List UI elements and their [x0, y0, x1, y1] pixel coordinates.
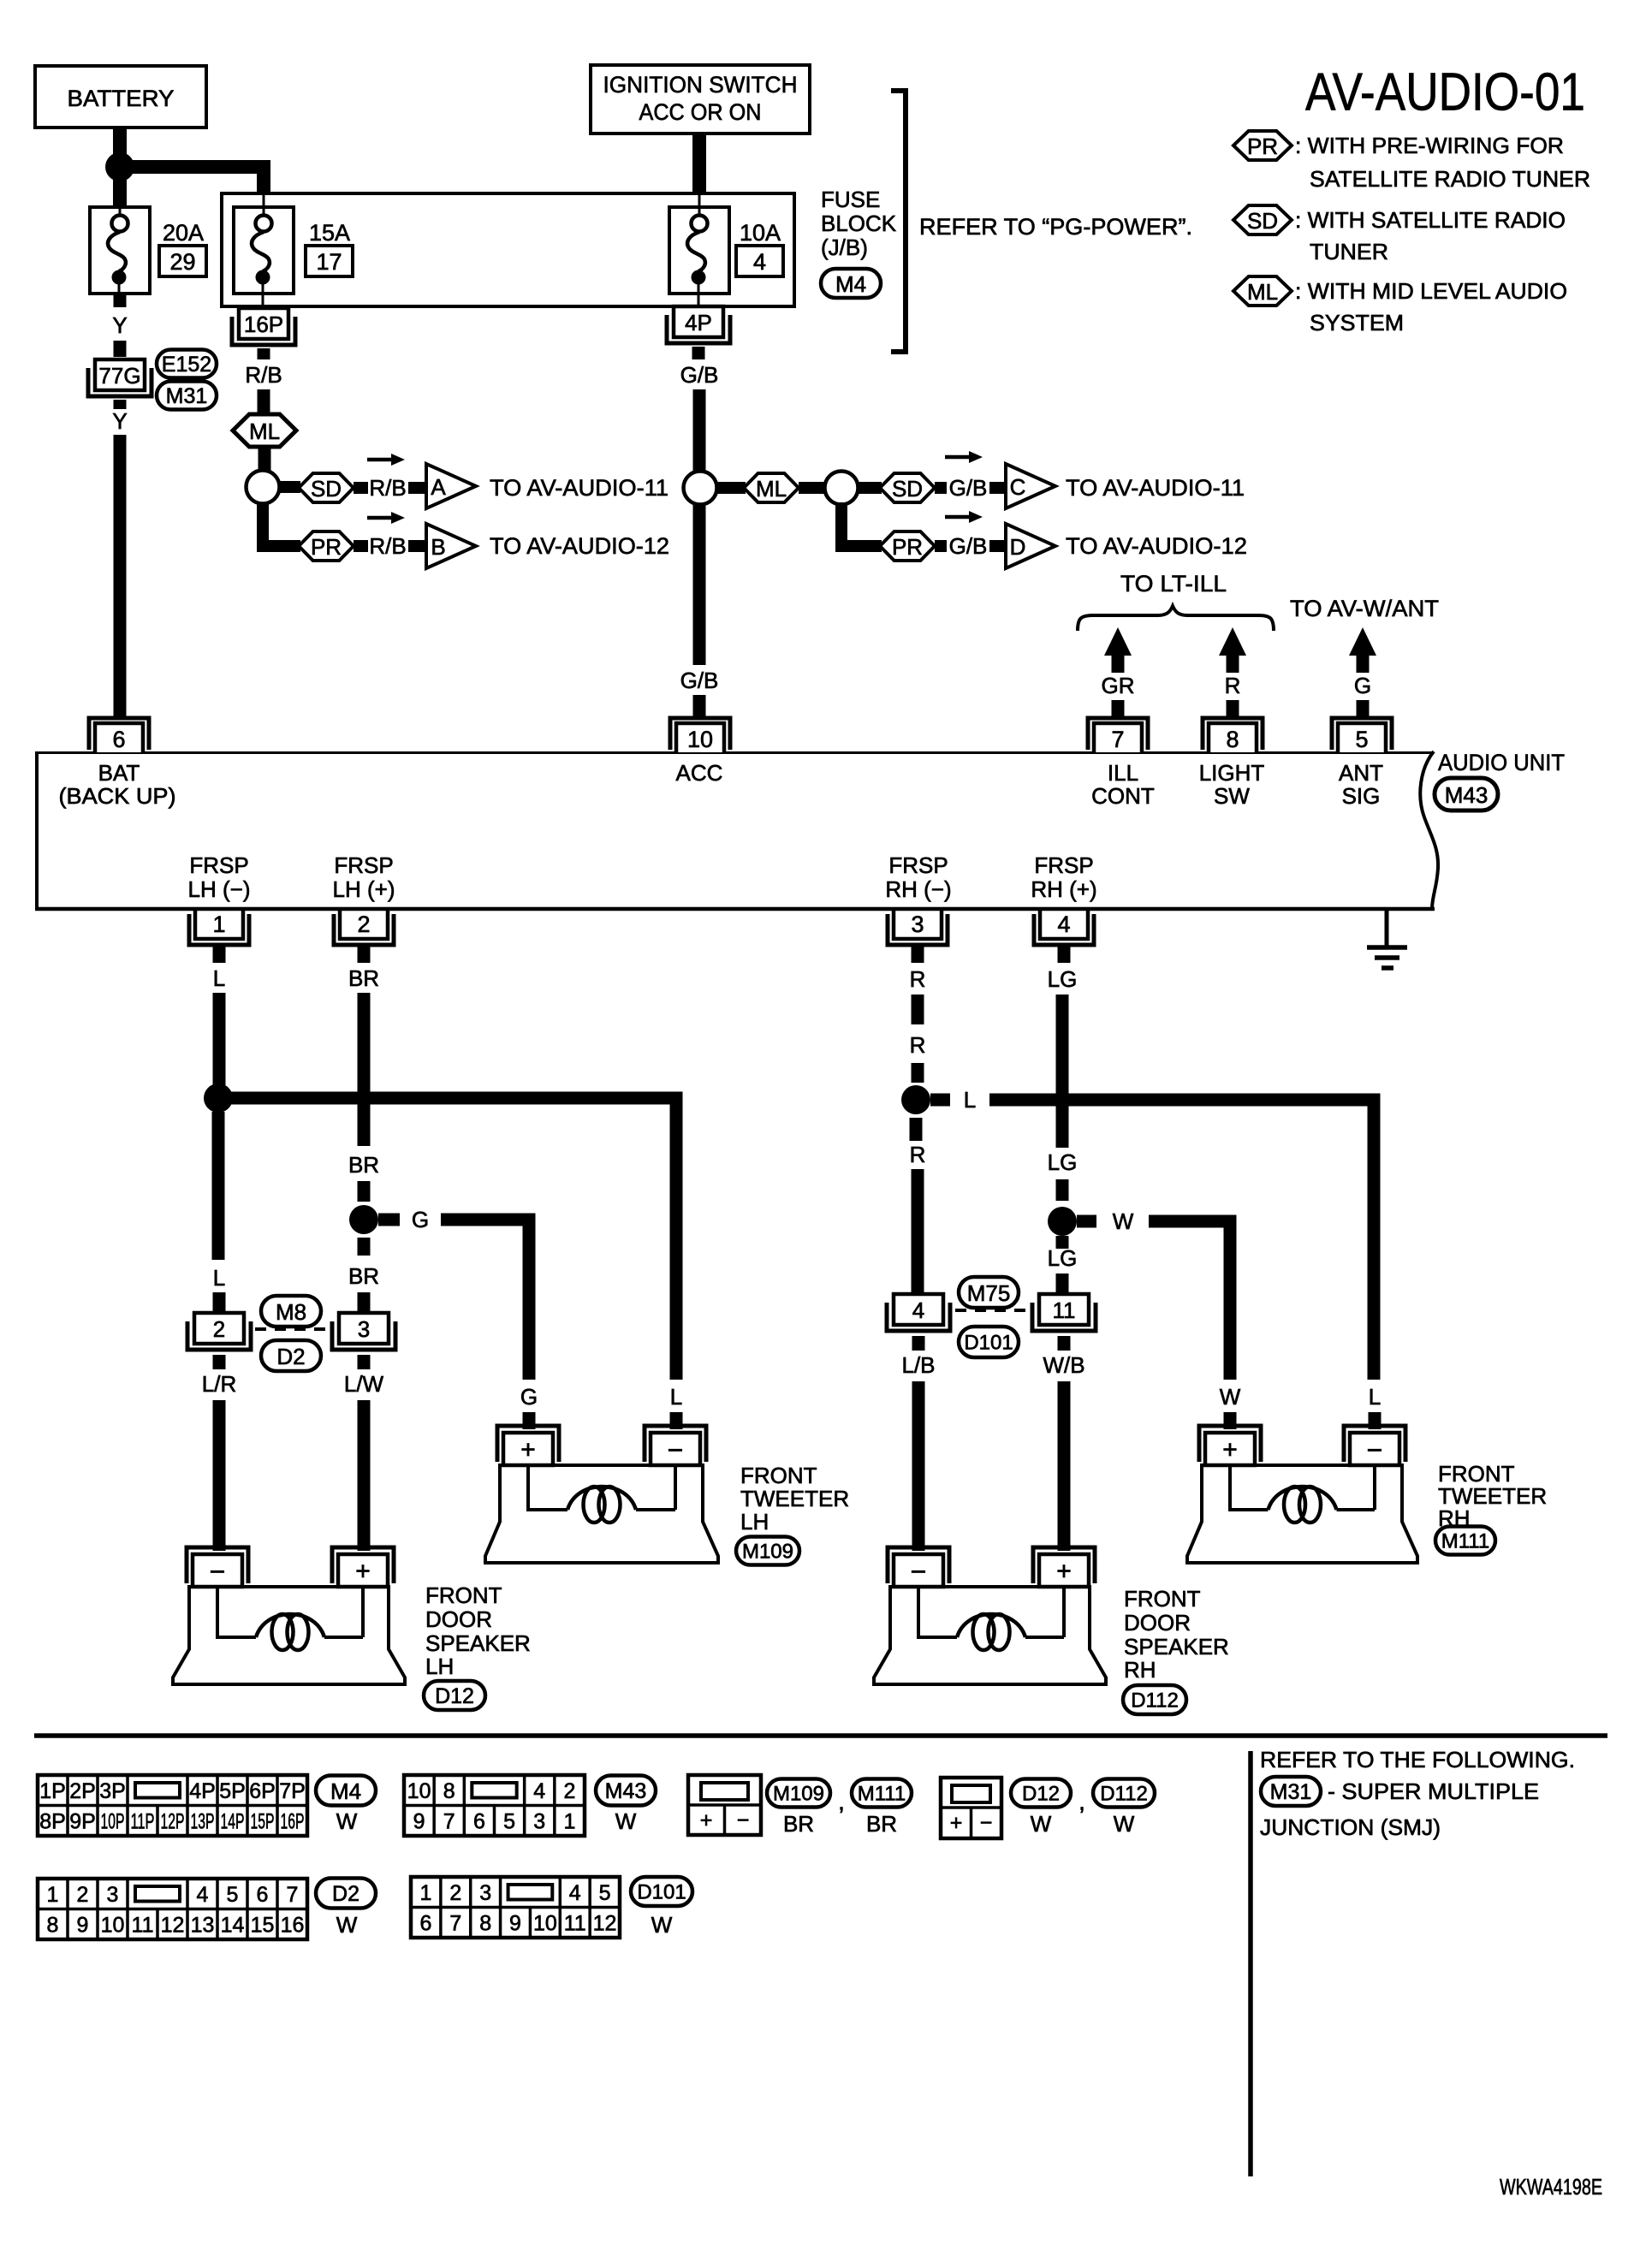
wire connector 4 down — [912, 1336, 925, 1351]
svg-text:7: 7 — [449, 1911, 461, 1935]
svg-text:2: 2 — [357, 911, 370, 937]
svg-text:29: 29 — [169, 249, 195, 275]
option hexagon ML right — [744, 473, 799, 502]
wire PR to label — [354, 540, 368, 552]
svg-text:M111: M111 — [1441, 1530, 1489, 1553]
wire node C to ML — [716, 482, 746, 494]
node B circle — [247, 471, 280, 504]
connector B triangle — [426, 524, 476, 568]
svg-text:G/B: G/B — [949, 475, 988, 501]
svg-text:REFER TO THE FOLLOWING.: REFER TO THE FOLLOWING. — [1260, 1747, 1575, 1772]
terminal 7 — [1088, 718, 1148, 750]
svg-text:2P: 2P — [69, 1779, 96, 1803]
svg-text:16P: 16P — [281, 1809, 305, 1833]
svg-text:AV-AUDIO-01: AV-AUDIO-01 — [1305, 63, 1585, 122]
direction arrow C — [945, 455, 971, 460]
connector M4 pin grid — [38, 1775, 307, 1836]
svg-text:+: + — [1056, 1558, 1072, 1586]
svg-text:9: 9 — [413, 1809, 425, 1833]
svg-text:+: + — [355, 1558, 371, 1586]
wire G/B to node C — [693, 389, 706, 665]
svg-text:+: + — [520, 1436, 536, 1464]
option hexagon SD left — [299, 473, 354, 502]
connector 77G — [95, 359, 145, 390]
svg-text:BR: BR — [348, 1263, 379, 1289]
connector M43 oval — [1435, 778, 1498, 810]
front tweeter LH terminal + — [497, 1426, 559, 1462]
svg-text:G: G — [412, 1207, 429, 1232]
svg-text:9: 9 — [77, 1913, 89, 1937]
svg-text:D: D — [1010, 534, 1026, 560]
front door speaker LH terminal + — [332, 1547, 394, 1583]
svg-text:: WITH PRE-WIRING FOR: : WITH PRE-WIRING FOR — [1295, 133, 1564, 158]
svg-text:G/B: G/B — [680, 668, 719, 693]
svg-text:−: − — [911, 1556, 927, 1587]
wire ignition switch to fuse block — [692, 135, 706, 194]
front door speaker RH body — [874, 1587, 1106, 1684]
wire node D to PR — [841, 502, 882, 546]
front door speaker LH terminal − — [187, 1547, 248, 1583]
terminal 2 — [340, 909, 388, 939]
wire node G dash down — [910, 1118, 923, 1141]
svg-text:5: 5 — [227, 1883, 239, 1907]
svg-text:(BACK UP): (BACK UP) — [59, 783, 176, 809]
svg-text:W: W — [615, 1808, 637, 1834]
svg-text:D101: D101 — [964, 1332, 1013, 1355]
wire G into tweeter LH plus — [523, 1412, 536, 1429]
svg-text:ML: ML — [1247, 279, 1278, 305]
svg-text:11: 11 — [1053, 1297, 1076, 1323]
front tweeter LH voice coil — [528, 1465, 567, 1510]
wire SD to label — [935, 482, 947, 494]
svg-text:DOOR: DOOR — [1124, 1610, 1191, 1636]
svg-text:8: 8 — [47, 1913, 59, 1937]
front door speaker RH terminal + — [1033, 1547, 1095, 1583]
svg-text:4: 4 — [753, 249, 766, 275]
svg-text:R/B: R/B — [369, 533, 406, 559]
connector D12 oval — [424, 1681, 485, 1710]
svg-text:5: 5 — [1355, 727, 1368, 752]
svg-text:TO AV-W/ANT: TO AV-W/ANT — [1290, 596, 1439, 621]
svg-text:4: 4 — [1057, 911, 1070, 937]
connector M43 pin grid — [404, 1775, 585, 1836]
wire R dash 1 — [912, 994, 924, 1024]
connector 4P — [674, 306, 723, 337]
connector 16P — [239, 308, 288, 339]
front tweeter RH terminal − — [1344, 1426, 1405, 1462]
svg-text:G/B: G/B — [680, 362, 719, 388]
connector D12/D112 pin grid — [941, 1778, 1001, 1838]
svg-text:17: 17 — [316, 249, 342, 275]
svg-text:8: 8 — [443, 1779, 455, 1803]
svg-text:LG: LG — [1048, 1245, 1078, 1271]
wire LG down — [1056, 994, 1069, 1148]
svg-text:SIG: SIG — [1342, 783, 1381, 809]
node E junction dot — [204, 1084, 233, 1113]
svg-text:M43: M43 — [605, 1779, 647, 1803]
svg-text:4: 4 — [569, 1881, 581, 1905]
svg-text:BR: BR — [348, 1152, 379, 1178]
connector 2-3 dashed link — [255, 1327, 330, 1331]
svg-text:D12: D12 — [1022, 1783, 1060, 1806]
connector M4 oval — [821, 269, 881, 298]
svg-text:B: B — [431, 534, 445, 560]
connector M31 oval — [157, 382, 217, 410]
svg-text:WKWA4198E: WKWA4198E — [1500, 2174, 1602, 2200]
wire to ML option — [258, 389, 270, 416]
connector M109 oval — [736, 1537, 799, 1565]
front tweeter RH voice coil — [1230, 1465, 1269, 1510]
svg-text:3P: 3P — [99, 1779, 126, 1803]
svg-text:13P: 13P — [191, 1809, 215, 1833]
svg-text:BR: BR — [866, 1811, 897, 1837]
connector M75 oval — [959, 1277, 1019, 1308]
svg-text:W: W — [1220, 1384, 1241, 1410]
wire R to connector 4 — [912, 1169, 924, 1292]
svg-text:TO LT-ILL: TO LT-ILL — [1120, 571, 1227, 597]
svg-text:D2: D2 — [332, 1882, 359, 1906]
svg-text:11P: 11P — [131, 1809, 155, 1833]
svg-text:FRONT: FRONT — [740, 1463, 817, 1488]
svg-text:D112: D112 — [1100, 1783, 1148, 1806]
svg-text:6: 6 — [112, 727, 125, 752]
svg-text:13: 13 — [191, 1913, 215, 1937]
wire label to connector B — [408, 540, 428, 552]
svg-text:TWEETER: TWEETER — [740, 1486, 849, 1511]
svg-text:Y: Y — [112, 408, 127, 434]
svg-text:W: W — [336, 1912, 358, 1938]
direction arrow B — [367, 516, 393, 520]
svg-text:3: 3 — [911, 911, 924, 937]
svg-text:G: G — [1354, 673, 1371, 698]
svg-text:ACC: ACC — [676, 760, 723, 786]
svg-text:10P: 10P — [101, 1809, 125, 1833]
svg-text:M75: M75 — [967, 1280, 1011, 1306]
wire W to tweeter RH plus — [1149, 1221, 1230, 1380]
wire R stub — [1227, 700, 1239, 717]
svg-text:M111: M111 — [858, 1783, 906, 1806]
svg-text:4P: 4P — [685, 310, 712, 335]
svg-text:A: A — [431, 474, 446, 500]
svg-text:TO AV-AUDIO-11: TO AV-AUDIO-11 — [490, 475, 668, 501]
svg-text:L/W: L/W — [344, 1371, 384, 1397]
terminal 8 — [1203, 718, 1263, 750]
svg-text:2: 2 — [77, 1883, 89, 1907]
connector D101 oval — [959, 1327, 1019, 1357]
svg-text:W: W — [1113, 1208, 1134, 1234]
svg-text:3: 3 — [533, 1809, 545, 1833]
svg-text:3: 3 — [479, 1881, 491, 1905]
svg-text:5: 5 — [599, 1881, 611, 1905]
connector D101 grid oval — [631, 1877, 692, 1906]
svg-text:REFER TO “PG-POWER”.: REFER TO “PG-POWER”. — [919, 214, 1192, 240]
node G junction dot — [901, 1085, 930, 1114]
connector D112 oval — [1123, 1685, 1186, 1714]
svg-text:ILL: ILL — [1108, 760, 1138, 786]
connector 4-11 dashed link — [955, 1309, 1027, 1312]
svg-text:BLOCK: BLOCK — [821, 211, 897, 236]
svg-text:RH (−): RH (−) — [885, 876, 951, 902]
svg-text:LH (−): LH (−) — [188, 876, 251, 902]
svg-text:Y: Y — [112, 312, 127, 338]
svg-text:SYSTEM: SYSTEM — [1310, 310, 1404, 335]
fuse block J/B outline — [222, 193, 794, 306]
front door speaker RH terminal − — [888, 1547, 949, 1583]
legend PR option symbol — [1233, 131, 1292, 160]
wire R dash 2 — [912, 1063, 924, 1083]
svg-text:5P: 5P — [219, 1779, 246, 1803]
connector M31 oval — [1261, 1777, 1321, 1806]
front tweeter RH terminal + — [1199, 1426, 1261, 1462]
svg-text:12: 12 — [161, 1913, 185, 1937]
svg-text:D12: D12 — [435, 1684, 474, 1708]
fuse 15A F17 — [263, 195, 265, 209]
wire G/B to terminal 10 — [693, 695, 706, 717]
fuse 10A F4 — [698, 195, 701, 209]
wire 16P down — [258, 348, 270, 359]
terminal 1 — [195, 909, 243, 939]
wire L/B to door speaker RH — [912, 1381, 925, 1551]
svg-text:LH (+): LH (+) — [333, 876, 395, 902]
svg-text:L: L — [213, 965, 225, 991]
svg-text:M109: M109 — [742, 1541, 793, 1564]
svg-text:LIGHT: LIGHT — [1199, 760, 1265, 786]
wire node F dash down — [358, 1238, 371, 1256]
svg-text:TO AV-AUDIO-12: TO AV-AUDIO-12 — [1066, 533, 1247, 559]
wire LG to connector 11 — [1056, 1274, 1069, 1292]
svg-text:L: L — [964, 1087, 976, 1113]
svg-text:10: 10 — [687, 727, 713, 752]
svg-text:ACC OR ON: ACC OR ON — [639, 99, 762, 125]
svg-text:1: 1 — [47, 1883, 59, 1907]
svg-text:7: 7 — [287, 1883, 299, 1907]
ignition switch power source — [591, 65, 810, 134]
svg-text:PR: PR — [311, 534, 342, 560]
wire L/W to door speaker LH — [358, 1400, 371, 1551]
svg-text:ML: ML — [756, 476, 787, 502]
svg-text:PR: PR — [892, 534, 923, 560]
separator line — [34, 1733, 1607, 1738]
svg-text:L/B: L/B — [901, 1352, 935, 1378]
wire PR to label — [935, 540, 947, 552]
svg-text:16: 16 — [281, 1913, 305, 1937]
svg-text:LH: LH — [740, 1509, 769, 1535]
svg-text:3: 3 — [107, 1883, 119, 1907]
svg-text:+: + — [1222, 1436, 1238, 1464]
node F junction dot — [349, 1205, 378, 1234]
svg-text:,: , — [1078, 1789, 1085, 1815]
svg-text:16P: 16P — [244, 312, 283, 337]
connector 11 M75/D101 — [1039, 1294, 1089, 1325]
svg-text:IGNITION SWITCH: IGNITION SWITCH — [603, 72, 798, 98]
wire 77G down — [114, 400, 127, 409]
svg-text:M4: M4 — [330, 1778, 361, 1804]
wire W/B to door speaker RH — [1058, 1381, 1071, 1551]
wire node B to SD — [278, 481, 300, 493]
wire node F stub right — [378, 1214, 400, 1226]
svg-text:R: R — [910, 1032, 926, 1058]
connector C triangle — [1006, 464, 1055, 508]
svg-text:10: 10 — [101, 1913, 125, 1937]
wire G to tweeter LH plus — [441, 1220, 529, 1380]
svg-text:BR: BR — [348, 965, 379, 991]
svg-text:C: C — [1010, 474, 1026, 500]
svg-text:ANT: ANT — [1339, 760, 1383, 786]
brace over LT-ILL arrows — [1078, 606, 1274, 631]
svg-text:G: G — [520, 1384, 538, 1410]
option hexagon PR right — [880, 531, 935, 561]
wire node B to PR — [263, 502, 300, 546]
svg-text:3: 3 — [358, 1316, 370, 1342]
svg-text:7: 7 — [1111, 727, 1124, 752]
connector D112 grid oval — [1093, 1779, 1155, 1808]
svg-text:L: L — [670, 1384, 682, 1410]
wire BR dash — [358, 1181, 371, 1202]
svg-text:R: R — [1225, 673, 1241, 698]
svg-text:TUNER: TUNER — [1310, 239, 1388, 264]
wire BR to connector 3 — [358, 1292, 371, 1312]
wire Y to audio unit — [114, 435, 127, 717]
svg-text:FRSP: FRSP — [189, 852, 248, 878]
terminal 5 — [1332, 718, 1392, 750]
svg-text:G/B: G/B — [949, 533, 988, 559]
svg-text:SW: SW — [1214, 783, 1250, 809]
wire node H stub right — [1077, 1215, 1096, 1228]
connector 4 M75/D101 — [894, 1294, 943, 1325]
wire L to tweeter RH minus — [989, 1100, 1374, 1380]
svg-text:20A: 20A — [163, 220, 204, 246]
node C circle — [684, 472, 717, 505]
svg-text:−: − — [980, 1811, 993, 1835]
node H junction dot — [1048, 1207, 1077, 1236]
front tweeter LH terminal − — [645, 1426, 706, 1462]
svg-text:M109: M109 — [773, 1783, 824, 1806]
svg-text:15: 15 — [251, 1913, 275, 1937]
svg-text:ML: ML — [249, 419, 280, 444]
connector M111 oval — [1435, 1527, 1495, 1555]
ground symbol — [1385, 911, 1389, 947]
svg-text:−: − — [210, 1556, 226, 1587]
svg-text:LH: LH — [425, 1654, 454, 1679]
svg-text:R: R — [910, 966, 926, 992]
wire L/R to door speaker LH — [213, 1400, 226, 1551]
connector A triangle — [426, 464, 476, 508]
svg-text:4: 4 — [533, 1779, 545, 1803]
svg-text:M31: M31 — [166, 384, 208, 408]
front door speaker LH body — [173, 1587, 405, 1684]
svg-text:8: 8 — [479, 1911, 491, 1935]
svg-text:(J/B): (J/B) — [821, 235, 868, 260]
svg-text:L: L — [1369, 1384, 1381, 1410]
svg-text:M31: M31 — [1270, 1780, 1312, 1804]
wire fuse 20A to 77G — [114, 294, 127, 307]
svg-text:1: 1 — [419, 1881, 431, 1905]
svg-text:8P: 8P — [39, 1809, 66, 1833]
connector D2 oval — [261, 1340, 321, 1371]
wire connector 11 down — [1058, 1336, 1071, 1351]
svg-text:W: W — [1114, 1811, 1135, 1837]
svg-text:W: W — [651, 1912, 673, 1938]
wire node H stub down — [1056, 1236, 1069, 1249]
svg-text:+: + — [700, 1808, 713, 1832]
svg-text:2: 2 — [449, 1881, 461, 1905]
svg-text:12: 12 — [593, 1911, 617, 1935]
wire BR down — [358, 993, 371, 1146]
wire node E down — [212, 1112, 225, 1260]
svg-text:PR: PR — [1247, 134, 1278, 159]
svg-text:: WITH MID LEVEL AUDIO: : WITH MID LEVEL AUDIO — [1295, 278, 1567, 304]
terminal 10 — [670, 718, 730, 750]
svg-text:JUNCTION (SMJ): JUNCTION (SMJ) — [1260, 1814, 1441, 1840]
svg-text:SD: SD — [311, 476, 342, 502]
svg-text:2: 2 — [213, 1316, 225, 1342]
node A junction dot — [105, 152, 134, 181]
fuse block bracket — [891, 91, 906, 352]
svg-text:CONT: CONT — [1091, 783, 1155, 809]
arrow to AV-W/ANT G — [1349, 627, 1376, 673]
svg-text:M43: M43 — [1445, 782, 1488, 808]
svg-text:DOOR: DOOR — [425, 1606, 492, 1632]
wire G stub — [1357, 700, 1370, 717]
direction arrow A — [367, 458, 393, 462]
wire GR stub — [1112, 700, 1125, 717]
svg-text:FRSP: FRSP — [334, 852, 393, 878]
svg-text:5: 5 — [503, 1809, 515, 1833]
legend ML option symbol — [1233, 276, 1292, 306]
svg-text:D112: D112 — [1131, 1689, 1179, 1713]
svg-text:+: + — [950, 1811, 963, 1835]
svg-text:BATTERY: BATTERY — [68, 86, 175, 111]
connector M43 grid oval — [596, 1776, 656, 1806]
front door speaker RH voice coil — [918, 1587, 957, 1637]
connector M8 oval — [261, 1296, 321, 1327]
legend SD option symbol — [1233, 205, 1292, 235]
svg-text:10A: 10A — [740, 220, 781, 246]
svg-text:1: 1 — [563, 1809, 575, 1833]
svg-text:12P: 12P — [161, 1809, 185, 1833]
connector D101 pin grid — [411, 1877, 620, 1938]
svg-text:L: L — [213, 1265, 225, 1291]
connector M111 grid oval — [852, 1779, 912, 1808]
direction arrow D — [945, 515, 971, 520]
connector 2 M8/D2 — [194, 1313, 244, 1344]
terminal 3 — [894, 909, 942, 939]
node D circle — [825, 472, 859, 505]
wire ML to node B — [258, 447, 271, 472]
svg-text:1P: 1P — [39, 1779, 66, 1803]
wire W into tweeter RH plus — [1224, 1412, 1237, 1429]
svg-text:−: − — [1367, 1434, 1383, 1465]
connector M109 grid oval — [767, 1779, 830, 1808]
svg-text:M8: M8 — [276, 1299, 306, 1325]
wire ML to node D — [799, 482, 826, 494]
footer divider line — [1248, 1751, 1253, 2176]
svg-text:15A: 15A — [309, 220, 350, 246]
svg-text:11: 11 — [132, 1913, 154, 1937]
svg-text:L/R: L/R — [202, 1371, 236, 1397]
svg-text:TO AV-AUDIO-12: TO AV-AUDIO-12 — [490, 533, 669, 559]
wire connector 3 down — [358, 1355, 371, 1369]
wire node E to tweeter LH minus — [225, 1098, 676, 1380]
svg-text:6: 6 — [473, 1809, 485, 1833]
wire L to connector 2 — [213, 1292, 226, 1312]
front tweeter LH body — [485, 1465, 718, 1563]
svg-text:RH: RH — [1124, 1657, 1156, 1683]
connector 3 M8/D2 — [339, 1313, 389, 1344]
svg-text:SPEAKER: SPEAKER — [425, 1630, 531, 1656]
svg-text:FRONT: FRONT — [425, 1582, 502, 1608]
svg-text:D101: D101 — [637, 1881, 686, 1904]
